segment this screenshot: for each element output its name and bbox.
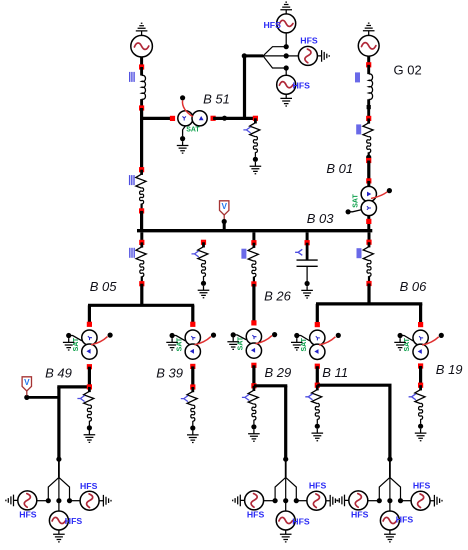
svg-text:HFS: HFS <box>413 481 431 491</box>
HFS source bottom <box>277 75 296 94</box>
probe stem <box>223 215 225 220</box>
node B03a <box>139 240 144 245</box>
shunt load B11 <box>312 390 322 404</box>
wire <box>191 366 194 387</box>
node B29t <box>251 320 256 325</box>
junction <box>242 53 247 58</box>
transformer B51 <box>178 111 207 126</box>
phase marker <box>241 249 246 259</box>
cluster 3 feeder wire <box>389 459 391 477</box>
fan wire middle <box>263 55 286 57</box>
svg-text:B 51: B 51 <box>203 92 230 107</box>
wire <box>286 55 298 57</box>
ground <box>430 495 442 507</box>
phase marker III <box>130 248 134 258</box>
wire <box>140 211 143 230</box>
line element B03-B06 <box>363 247 373 261</box>
node T2 <box>284 53 289 58</box>
HFS source cluster 2 left <box>245 491 264 510</box>
wire <box>252 232 255 242</box>
node cluster 3 B <box>398 498 403 503</box>
svg-text:HFS: HFS <box>247 509 265 519</box>
cluster 2 wire to bottom source <box>285 501 287 511</box>
wire <box>368 232 371 242</box>
phase marker <box>77 396 84 402</box>
node B11b <box>315 383 320 388</box>
svg-text:SAT: SAT <box>352 194 359 208</box>
wire <box>140 232 143 242</box>
node cluster 3 A <box>377 498 382 503</box>
wire <box>367 216 370 229</box>
ground <box>227 338 239 350</box>
cluster 1 wire to bottom source <box>58 501 60 511</box>
cluster 3 wire to right source <box>401 500 411 502</box>
wire <box>316 304 319 323</box>
node B11 tap <box>336 333 341 338</box>
ground <box>326 495 338 507</box>
wire neutral B19 <box>400 336 413 342</box>
node B49m <box>87 364 92 369</box>
cluster 2 fan wire middle <box>285 477 287 500</box>
svg-text:B 29: B 29 <box>265 365 292 380</box>
cluster 1 junction <box>56 457 61 462</box>
node capacitor <box>305 281 310 286</box>
bus feeder to HFS cluster <box>243 56 246 119</box>
wire neutral B39 <box>172 336 185 341</box>
ground <box>63 338 75 350</box>
node B19t <box>418 322 423 327</box>
transformer B49 <box>82 330 97 359</box>
capacitor C1 <box>297 260 318 266</box>
HFS source middle <box>298 46 317 65</box>
node T1 <box>284 44 289 49</box>
ground <box>166 338 178 350</box>
ground <box>233 495 245 507</box>
shunt load B29 <box>248 390 258 404</box>
node B51c <box>253 116 258 121</box>
node N4 <box>139 208 144 213</box>
node B29 neutral <box>231 332 236 337</box>
svg-text:V: V <box>221 202 227 211</box>
cluster 2 fan wire right <box>286 477 297 500</box>
shunt load B51 <box>250 123 260 137</box>
node probe <box>222 219 227 224</box>
ground <box>6 495 18 507</box>
node B49 neutral <box>66 333 71 338</box>
node B03d <box>305 240 310 245</box>
fan wire top <box>263 47 286 56</box>
phase marker <box>181 396 188 402</box>
node cluster 3 C <box>387 498 392 503</box>
wire <box>140 284 143 304</box>
shunt load B19 terminal <box>418 424 423 429</box>
node B01b <box>366 219 371 224</box>
ground <box>198 286 210 298</box>
HFS source cluster 3 left <box>349 491 368 510</box>
svg-text:HFS: HFS <box>293 81 311 91</box>
HFS source cluster 1 left <box>18 491 37 510</box>
ground <box>187 431 199 443</box>
ground <box>280 530 292 542</box>
wire <box>223 223 226 231</box>
cluster 3 fan wire right <box>390 477 401 500</box>
HFS source cluster 1 bottom <box>49 511 68 530</box>
shunt load B03 stub <box>202 242 205 247</box>
saturation curve <box>371 192 387 199</box>
feeder B49 down <box>57 387 60 459</box>
probe stem <box>26 391 28 396</box>
saturation curve <box>194 337 211 345</box>
svg-text:B 11: B 11 <box>322 365 348 380</box>
ground <box>291 338 303 350</box>
bus B06 <box>316 302 422 305</box>
line element B03-B05 <box>136 247 146 261</box>
generator inductor L2 <box>369 74 373 100</box>
HFS source cluster 3 bottom <box>380 511 399 530</box>
bus B03 <box>137 229 372 232</box>
node B49 tap <box>108 333 113 338</box>
node G1 <box>366 62 371 67</box>
cluster 2 junction <box>283 457 288 462</box>
shunt load B51 terminal <box>253 157 258 162</box>
HFS source cluster 1 right <box>80 491 99 510</box>
node B19b <box>418 383 423 388</box>
node B39 tap <box>211 333 216 338</box>
cluster 3 fan wire middle <box>389 477 391 500</box>
wire <box>285 68 287 75</box>
phase marker III <box>130 175 134 185</box>
wire neutral B49 <box>69 336 82 341</box>
node B51 neutral <box>180 136 185 141</box>
node B29m <box>251 363 256 368</box>
bus B49 <box>57 385 89 388</box>
node N2 <box>139 105 144 110</box>
svg-text:B 26: B 26 <box>264 288 292 303</box>
node cluster 2 C <box>283 498 288 503</box>
svg-text:V: V <box>24 378 30 387</box>
transformer B39 <box>185 330 200 359</box>
svg-text:B 03: B 03 <box>307 211 335 226</box>
shunt load B19 stub <box>419 385 422 390</box>
svg-text:HFS: HFS <box>292 516 310 526</box>
wire <box>140 99 143 108</box>
svg-text:B 01: B 01 <box>326 161 353 176</box>
line element to B03 stub <box>140 170 143 175</box>
ground <box>136 23 148 35</box>
wire <box>367 161 370 182</box>
HFS source cluster 2 right <box>307 491 326 510</box>
ground <box>177 141 189 153</box>
ground <box>248 429 260 441</box>
ground <box>415 429 427 441</box>
cluster 3 fan wire left <box>379 477 390 500</box>
shunt load B11 stub <box>316 385 319 390</box>
ground <box>280 2 292 14</box>
wire <box>88 367 91 387</box>
svg-text:SAT: SAT <box>186 127 200 134</box>
wire <box>419 304 422 323</box>
bus B05 <box>88 304 194 307</box>
node cluster 1 B <box>67 498 72 503</box>
wire <box>419 366 422 385</box>
transformer B11 <box>310 330 325 359</box>
node B01 tap <box>387 188 392 193</box>
node cluster 2 A <box>273 498 278 503</box>
node G3 <box>366 158 371 163</box>
ground <box>312 429 324 441</box>
wire <box>367 284 370 304</box>
cluster 2 wire to right source <box>296 500 306 502</box>
cluster 3 junction <box>387 457 392 462</box>
cluster 2 wire to left source <box>264 500 275 502</box>
HFS source top <box>277 14 296 33</box>
phase marker <box>356 124 361 134</box>
wire neutral B11 <box>297 336 310 342</box>
phase marker <box>305 394 312 400</box>
wire <box>306 232 309 242</box>
bus B51 right segment <box>213 117 257 120</box>
node cluster 2 B <box>294 498 299 503</box>
shunt load B03 <box>198 247 208 261</box>
line element G02 <box>363 123 373 137</box>
wire <box>252 284 255 323</box>
node B11 neutral <box>294 333 299 338</box>
line element to B03 <box>136 174 146 188</box>
feeder B11 down <box>388 385 391 459</box>
ground <box>301 286 313 298</box>
ground <box>53 530 65 542</box>
cluster 3 wire to bottom source <box>389 501 391 511</box>
svg-text:HFS: HFS <box>396 515 414 525</box>
wire <box>306 266 308 281</box>
saturation curve <box>422 337 439 345</box>
node B39m <box>190 364 195 369</box>
node B39b <box>190 384 195 389</box>
wire <box>367 181 370 187</box>
phase marker <box>355 72 360 82</box>
shunt load B39 <box>187 391 197 405</box>
wire <box>245 54 264 57</box>
cluster 2 fan wire left <box>275 477 286 500</box>
wire neutral B51 <box>183 126 186 136</box>
cluster 1 wire to left source <box>37 500 48 502</box>
line element G02 stub <box>368 152 370 157</box>
AC source U1 <box>131 35 153 57</box>
node cluster 1 C <box>56 498 61 503</box>
node B03c <box>251 240 256 245</box>
line element B03-B26 <box>248 247 258 261</box>
line element B03-B26 stub <box>253 277 255 282</box>
feeder B29 down <box>284 386 287 459</box>
node B11t <box>315 322 320 327</box>
node B49t <box>87 322 92 327</box>
bus B11 <box>317 384 391 387</box>
phase marker <box>243 127 250 133</box>
transformer B01 <box>361 186 376 215</box>
node B06a <box>366 281 371 286</box>
line element B03-B06 stub <box>368 242 371 247</box>
phase marker <box>192 251 199 257</box>
wire <box>367 56 370 63</box>
node B29 tap <box>272 332 277 337</box>
node B01a <box>366 178 371 183</box>
wire <box>88 305 91 323</box>
ground <box>84 431 96 443</box>
svg-text:B 39: B 39 <box>156 366 183 381</box>
phase marker <box>357 248 362 258</box>
cluster 3 wire to left source <box>368 500 379 502</box>
wire <box>252 365 255 386</box>
shunt load B03 terminal <box>201 281 206 286</box>
shunt load B39 terminal <box>190 425 195 430</box>
ground <box>280 94 292 106</box>
wire <box>285 33 287 47</box>
svg-text:HFS: HFS <box>19 509 37 519</box>
node N3 <box>139 167 144 172</box>
node B19 neutral <box>398 333 403 338</box>
node B51b <box>211 116 216 121</box>
node B51 primary tap <box>180 95 185 100</box>
svg-text:G 02: G 02 <box>394 63 422 78</box>
ground <box>317 50 329 62</box>
saturation curve <box>319 337 336 345</box>
line element G02 stub <box>367 118 370 123</box>
line element B03-B05 stub <box>141 276 143 281</box>
wire <box>140 67 143 76</box>
HFS source cluster 2 bottom <box>276 511 295 530</box>
node B19m <box>418 363 423 368</box>
phase marker III <box>130 72 134 82</box>
line element B03-B26 stub <box>252 243 255 248</box>
voltage probe V1 <box>220 201 229 215</box>
shunt load B19 <box>415 390 425 404</box>
node B01 neutral <box>346 209 351 214</box>
wire neutral B01 <box>348 210 362 212</box>
wire <box>140 57 143 66</box>
node B26a <box>251 281 256 286</box>
fan wire bottom <box>263 56 286 68</box>
phase marker <box>242 394 249 400</box>
ground <box>99 495 111 507</box>
wire <box>140 117 143 168</box>
line element B03-B05 stub <box>140 242 143 247</box>
cluster 1 fan wire left <box>48 477 59 500</box>
cluster 1 wire to right source <box>70 500 80 502</box>
node B51a <box>170 116 175 121</box>
node T3 <box>284 65 289 70</box>
svg-text:HFS: HFS <box>300 36 318 46</box>
shunt load B49 terminal <box>87 425 92 430</box>
node B03b <box>201 240 206 245</box>
svg-text:B 05: B 05 <box>90 279 118 294</box>
saturation curve <box>182 100 192 116</box>
junction <box>366 155 371 160</box>
wire neutral B29 <box>233 335 246 340</box>
junction <box>222 116 227 121</box>
node B49b <box>87 384 92 389</box>
node G2 <box>366 116 371 121</box>
shunt load B11 terminal <box>315 424 320 429</box>
svg-text:B 19: B 19 <box>436 362 463 377</box>
node N1 <box>139 64 144 69</box>
svg-text:B 06: B 06 <box>400 279 428 294</box>
svg-text:HFS: HFS <box>80 481 98 491</box>
wire <box>306 243 309 260</box>
saturation curve <box>91 337 108 345</box>
node B05a <box>139 281 144 286</box>
saturation curve <box>256 336 273 344</box>
wire <box>140 108 143 120</box>
phase marker <box>409 394 416 400</box>
cluster 1 fan wire right <box>59 477 70 500</box>
node cluster 1 A <box>46 498 51 503</box>
transformer B19 <box>413 330 428 359</box>
bus B51 left segment <box>142 117 173 120</box>
junction <box>367 105 371 109</box>
shunt load B51 stub <box>254 118 257 123</box>
node probe B49 <box>24 395 29 400</box>
shunt load B49 stub <box>88 387 91 392</box>
cluster 2 feeder wire <box>285 459 287 477</box>
bus B29 <box>254 384 287 387</box>
node B39t <box>190 322 195 327</box>
node B19 tap <box>439 333 444 338</box>
cluster 1 fan wire middle <box>58 477 60 500</box>
shunt load B39 stub <box>191 387 194 392</box>
svg-text:HFS: HFS <box>309 481 327 491</box>
transformer B29 <box>246 329 261 358</box>
svg-text:HFS: HFS <box>264 20 282 30</box>
ground <box>384 530 396 542</box>
voltage probe V2 <box>22 377 31 391</box>
wire <box>367 65 370 74</box>
ground <box>337 495 349 507</box>
wire <box>191 305 194 323</box>
node B03e <box>366 240 371 245</box>
wire <box>367 99 370 117</box>
AC generator G02 <box>358 35 379 56</box>
svg-text:HFS: HFS <box>351 510 369 520</box>
source inductor L1 <box>142 75 146 99</box>
node B39 neutral <box>170 333 175 338</box>
phase marker <box>295 249 302 255</box>
cluster 1 feeder wire <box>58 459 60 477</box>
svg-text:B 49: B 49 <box>45 366 72 381</box>
shunt load B29 terminal <box>251 424 256 429</box>
ground <box>394 338 406 350</box>
HFS source cluster 3 right <box>411 491 430 510</box>
node B11m <box>315 364 320 369</box>
line element to B03 stub <box>141 204 143 209</box>
node B29b <box>251 383 256 388</box>
shunt load B29 stub <box>252 386 255 391</box>
wire to probe <box>27 396 59 399</box>
wire <box>316 366 319 385</box>
shunt load B49 <box>84 391 94 405</box>
ground <box>363 23 375 35</box>
svg-text:HFS: HFS <box>65 516 83 526</box>
line element B03-B06 stub <box>368 276 370 281</box>
ground <box>250 162 262 174</box>
